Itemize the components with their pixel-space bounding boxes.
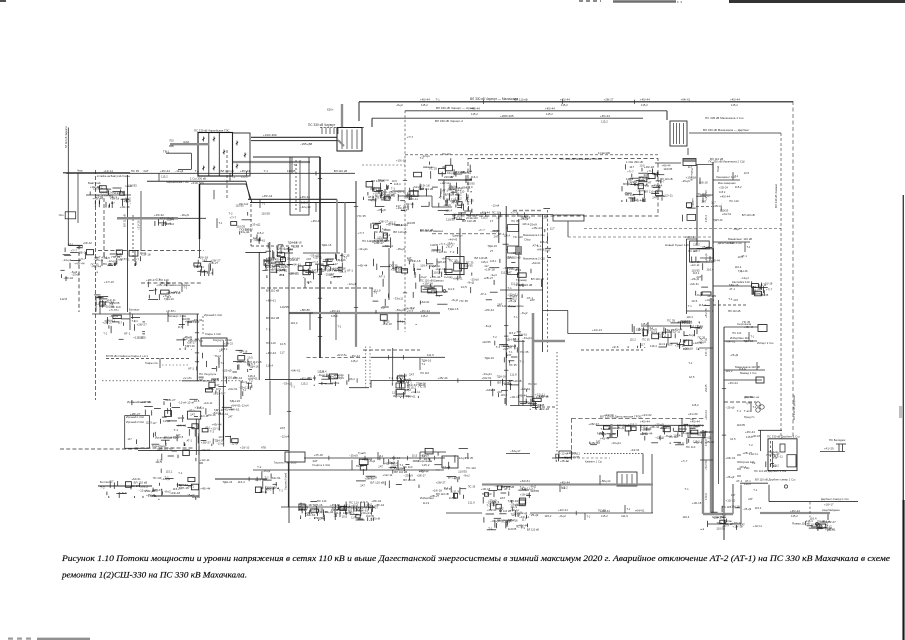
block Z internals wire (664, 428, 666, 434)
cluster y255 box (116, 250, 122, 254)
svg-text:ПС 330 кВ Махачкала 330 кВ: ПС 330 кВ Махачкала 330 кВ (560, 157, 602, 161)
cluster AP wire (548, 257, 552, 259)
svg-text:Т-1: Т-1 (445, 199, 449, 203)
dash-dot y283 (141, 282, 202, 284)
svg-text:+28/-27: +28/-27 (243, 228, 253, 232)
y479 ann tick (256, 477, 258, 481)
Kasumkent cluster wire (508, 491, 510, 495)
svg-text:+28/-27: +28/-27 (368, 506, 379, 510)
svg-text:+33/-32: +33/-32 (154, 213, 164, 217)
svg-text:115,2: 115,2 (546, 112, 553, 116)
PS Miatli wire (380, 183, 382, 189)
svg-text:Унцукуль 1 СШ: Унцукуль 1 СШ (213, 338, 232, 342)
svg-text:+64/-61: +64/-61 (334, 373, 345, 377)
tick bar (321, 127, 323, 134)
cluster I wire (218, 386, 226, 388)
svg-text:2АТ: 2АТ (748, 497, 753, 501)
Bavtugai cluster wire (113, 187, 122, 189)
svg-text:+45/-44: +45/-44 (662, 164, 671, 168)
svg-text:ВЛ 110 кВ: ВЛ 110 кВ (394, 470, 407, 474)
cluster U wire (438, 269, 440, 274)
svg-text:2Т: 2Т (490, 249, 493, 253)
svg-text:ТДН-16: ТДН-16 (421, 358, 431, 362)
svg-text:+64/-61: +64/-61 (305, 513, 316, 517)
svg-text:115,2: 115,2 (481, 216, 488, 220)
svg-text:Гергебиль: Гергебиль (152, 444, 166, 448)
cluster U wire (429, 284, 431, 287)
svg-text:+45/-44: +45/-44 (74, 261, 85, 265)
wire y479 (215, 478, 267, 480)
left extra E2 wire (112, 321, 119, 323)
cluster Gunib east wire (272, 250, 274, 257)
top line ann tick (633, 100, 635, 104)
Makhachkala 330 internals wire (639, 190, 641, 196)
city bay box (508, 246, 519, 253)
gray end cluster wire (540, 404, 542, 410)
PS Miatli wire (372, 196, 374, 200)
svg-text:+19/-18: +19/-18 (301, 503, 312, 507)
chain T1 wire (346, 380, 348, 384)
svg-text:+64/-61: +64/-61 (289, 272, 300, 276)
svg-text:T-1: T-1 (587, 515, 591, 519)
left extra E3 wire (166, 281, 168, 287)
cluster E box (100, 302, 104, 306)
wire AE-AC (446, 512, 482, 514)
block Z internals wire (602, 431, 604, 435)
svg-text:T-1: T-1 (627, 507, 631, 511)
y214 ann tick (523, 212, 525, 216)
svg-text:T-1: T-1 (422, 362, 426, 366)
x519 ann tick (517, 331, 521, 333)
cluster Q1 wire (275, 261, 283, 263)
svg-text:Новый Хушет 110: Новый Хушет 110 (665, 243, 689, 247)
Chirkey symbol tick (202, 167, 204, 169)
chain T2 wire (407, 382, 409, 388)
Makhachkala 330 internals wire (626, 199, 628, 202)
svg-text:116,4: 116,4 (683, 515, 690, 519)
dotted y380 (102, 380, 243, 382)
cluster Q2 wire (325, 266, 327, 270)
Gergebil cluster wire (161, 491, 163, 494)
artery top cluster wire (699, 178, 701, 185)
svg-text:−12+j4: −12+j4 (163, 221, 172, 225)
block internal wire (299, 160, 301, 212)
Levashi cluster wire (382, 245, 390, 247)
chain O1 wire (314, 517, 316, 519)
svg-text:116,4: 116,4 (238, 480, 245, 484)
svg-text:+45/-44: +45/-44 (560, 459, 569, 463)
artery top cluster wire (702, 197, 704, 202)
Bavtugai cluster box (99, 186, 106, 189)
svg-text:ВЛ 110 кВ Дербент-север 1 Сш: ВЛ 110 кВ Дербент-север 1 Сш (755, 478, 796, 482)
wire y496 (152, 495, 199, 497)
gray drop from bus b (344, 203, 346, 254)
svg-text:ПС 35: ПС 35 (466, 260, 474, 264)
wire x100 (99, 296, 101, 314)
cluster P wire (390, 466, 397, 468)
svg-text:Т-1: Т-1 (688, 361, 693, 365)
svg-text:2АТ: 2АТ (228, 415, 233, 419)
cluster P wire (405, 464, 409, 466)
cluster G2 wire (243, 353, 252, 355)
svg-text:1 Сш 330 кВ: 1 Сш 330 кВ (190, 177, 206, 181)
branch y341 (724, 340, 757, 342)
AF boxes wire (759, 287, 768, 289)
svg-text:Т-2: Т-2 (749, 443, 754, 447)
svg-text:−25+j9: −25+j9 (371, 516, 381, 520)
cluster R column wire (415, 324, 417, 325)
svg-text:−25+j9: −25+j9 (694, 326, 703, 330)
cluster R column box (402, 269, 408, 273)
svg-text:+25/-24: +25/-24 (719, 186, 728, 190)
svg-text:−25+j9: −25+j9 (443, 203, 452, 207)
svg-text:+28/-27: +28/-27 (588, 422, 599, 426)
left extra E2 wire (142, 333, 145, 335)
svg-text:Т-1: Т-1 (178, 471, 182, 475)
top line ann tick (483, 100, 485, 104)
cluster P wire (388, 459, 390, 464)
svg-text:−25+j9: −25+j9 (488, 498, 497, 502)
svg-text:117: 117 (280, 350, 285, 354)
block Z internals wire (616, 430, 618, 436)
svg-text:+8/-8 Лн: +8/-8 Лн (337, 353, 348, 357)
svg-text:Тарнаир: Тарнаир (516, 278, 527, 282)
chain O2 wire (339, 511, 341, 517)
svg-text:ПС 110 кВ Дербент 1 Сш: ПС 110 кВ Дербент 1 Сш (754, 469, 787, 473)
cluster y255 wire (116, 261, 118, 264)
block Z top dash-dot (572, 417, 706, 419)
left small cluster D wire (60, 274, 62, 278)
svg-text:АТ-1: АТ-1 (439, 196, 445, 200)
svg-text:ПС 35: ПС 35 (460, 299, 469, 303)
Levashi cluster wire (390, 237, 392, 241)
wire x760 drop (760, 430, 762, 451)
x320 ann tick (318, 178, 322, 180)
symbol (756, 402, 760, 406)
Makhachkala west bays wire (461, 203, 463, 208)
svg-text:116,4: 116,4 (212, 378, 219, 382)
cluster V box (518, 273, 527, 277)
svg-text:−25+j9: −25+j9 (690, 277, 699, 281)
cluster I wire (248, 382, 250, 389)
svg-text:+64/-61: +64/-61 (486, 388, 496, 392)
cluster AE wire (429, 458, 431, 461)
Irganai GES dense cluster wire (169, 408, 171, 416)
Izberbash junction cluster wire (643, 331, 645, 337)
svg-text:111,9: 111,9 (621, 514, 628, 518)
svg-text:ПС 35: ПС 35 (667, 319, 675, 323)
dashed y358 (106, 358, 191, 360)
bus y314 (92, 313, 199, 315)
left extra E2 wire (108, 325, 110, 328)
svg-text:−33+j11: −33+j11 (445, 171, 455, 175)
y173 ann tick (315, 171, 317, 175)
cluster Q2 wire (330, 281, 332, 284)
cluster R column wire (384, 299, 386, 306)
svg-text:1Сш: 1Сш (59, 214, 64, 217)
W bus taps wire (499, 344, 508, 346)
chain O2 wire (337, 505, 339, 510)
y214 ann tick (517, 212, 519, 216)
svg-text:+19/-18: +19/-18 (120, 205, 130, 209)
Irganai GES dense cluster wire (144, 410, 146, 415)
svg-text:ПС 110: ПС 110 (317, 499, 327, 503)
svg-text:117: 117 (696, 346, 701, 350)
svg-text:+64/-61: +64/-61 (330, 381, 340, 385)
cluster mid bus box (306, 262, 312, 265)
left extra E3 wire (148, 299, 158, 301)
tick bar (337, 127, 339, 134)
svg-text:ТДН-16: ТДН-16 (508, 499, 519, 503)
Makhachkala 330 internals wire (621, 186, 623, 191)
chain T2 wire (395, 393, 397, 398)
svg-text:+45/-44: +45/-44 (438, 376, 448, 380)
cluster AP wire (493, 230, 499, 232)
svg-text:Рисунок 1.10 Потоки мощности и: Рисунок 1.10 Потоки мощности и уровни на… (61, 554, 890, 563)
block Z internals wire (590, 444, 597, 446)
svg-text:Т-1: Т-1 (435, 97, 440, 101)
PS Miatli wire (381, 199, 387, 201)
cluster I wire (249, 386, 251, 390)
Makhachkala west bays wire (457, 206, 462, 208)
Bavtugai cluster wire (108, 190, 110, 195)
svg-text:T-1: T-1 (262, 202, 266, 206)
svg-text:ПС 35: ПС 35 (509, 363, 517, 367)
wire y430 top (758, 429, 782, 431)
drop x182 (182, 315, 184, 329)
cluster Gunib east wire (275, 265, 277, 273)
wire y290 (500, 289, 543, 291)
svg-text:+45/-44: +45/-44 (545, 106, 555, 110)
svg-text:110/35: 110/35 (128, 183, 137, 187)
svg-text:ТДН-16: ТДН-16 (249, 364, 259, 368)
svg-text:+7/-7: +7/-7 (230, 216, 237, 220)
AF boxes box (752, 284, 759, 288)
svg-text:+12/-11: +12/-11 (203, 401, 213, 405)
svg-text:−25+j9: −25+j9 (529, 513, 539, 517)
svg-text:−25+j9: −25+j9 (726, 475, 735, 479)
wire y501 long (769, 501, 858, 503)
svg-text:+64/-61: +64/-61 (681, 97, 691, 101)
svg-text:ТДН-16: ТДН-16 (448, 307, 459, 311)
svg-text:+28/-27: +28/-27 (137, 323, 148, 327)
cluster V wire (489, 267, 499, 269)
cluster below x199 wire (208, 264, 210, 272)
left extra E2 wire (121, 318, 130, 320)
Kasumkent cluster wire (521, 530, 523, 532)
branch dash y305 (713, 304, 747, 306)
svg-text:−12+j4: −12+j4 (186, 400, 195, 404)
svg-text:ПС 110 кВ Леваши: ПС 110 кВ Леваши (362, 239, 387, 243)
Makhachkala 330 internals wire (651, 193, 659, 195)
artery top cluster wire (687, 207, 695, 209)
below gray y218 wire (161, 224, 163, 226)
cluster L wire (104, 497, 106, 499)
block Z internals wire (675, 444, 684, 446)
small marks wire (555, 460, 557, 462)
cluster L wire (117, 481, 119, 486)
Makhachkala west bays wire (466, 193, 468, 199)
below gray y218 wire (158, 219, 160, 226)
box AD bar (621, 474, 623, 484)
Izberbash junction cluster wire (640, 343, 642, 348)
svg-text:115,2: 115,2 (509, 331, 516, 335)
cluster F wire (190, 349, 193, 351)
svg-text:T-1: T-1 (400, 463, 404, 467)
svg-text:Т-атл: Т-атл (744, 409, 751, 413)
below gray y218 wire (154, 221, 156, 226)
svg-text:10,5: 10,5 (307, 280, 313, 284)
cluster P wire (362, 469, 364, 475)
svg-text:Гоцатль 1 СШ: Гоцатль 1 СШ (312, 463, 330, 467)
svg-text:+64/-61: +64/-61 (403, 306, 414, 310)
svg-text:117: 117 (690, 417, 695, 421)
power plant block box (290, 157, 309, 215)
svg-text:116,4: 116,4 (650, 344, 657, 348)
svg-text:ремонта 1(2)СШ-330 на ПС 330: ремонта 1(2)СШ-330 на ПС 330 кВ Махачкал… (61, 571, 247, 580)
symbol (760, 405, 764, 409)
svg-text:+61/-60: +61/-60 (688, 412, 698, 416)
bar sym a (838, 444, 840, 452)
chain T1 wire (335, 382, 337, 387)
chain O1 wire (299, 518, 301, 519)
svg-text:+12/-11: +12/-11 (535, 393, 545, 397)
Izberbash junction cluster wire (674, 334, 676, 339)
svg-text:+45/-44: +45/-44 (711, 258, 721, 262)
Makhachkala west bays wire (454, 173, 462, 175)
svg-text:2АТ: 2АТ (530, 298, 535, 302)
svg-text:ВЛ 330 кВ Чирюрт — Артем: ВЛ 330 кВ Чирюрт — Артем (436, 106, 475, 110)
svg-text:+7/-7: +7/-7 (407, 135, 414, 139)
cluster G2 wire (205, 361, 207, 367)
svg-text:2СШ-110: 2СШ-110 (466, 216, 478, 220)
Shamkhal box bottom ticks (444, 274, 465, 276)
cluster P wire (413, 460, 419, 462)
svg-text:Чирк: Чирк (77, 169, 83, 172)
artery tap left (700, 347, 713, 349)
svg-text:116,4: 116,4 (522, 222, 529, 226)
gray dash y210 (513, 210, 543, 212)
Izberbash junction cluster wire (680, 322, 682, 330)
svg-text:ТДН-16: ТДН-16 (497, 374, 506, 378)
AF boxes wire (762, 286, 764, 293)
svg-text:−25+j9: −25+j9 (508, 294, 518, 298)
svg-text:ВЛ 330 кВ Дербент: ВЛ 330 кВ Дербент (792, 394, 796, 420)
svg-text:115,2: 115,2 (166, 469, 173, 473)
svg-text:10,5: 10,5 (277, 251, 283, 255)
svg-text:АТ-1: АТ-1 (188, 366, 194, 370)
W bus taps wire (519, 401, 527, 403)
left extra E2 wire (134, 324, 136, 330)
svg-text:115,2: 115,2 (601, 514, 608, 518)
cluster Q2 box (303, 271, 310, 275)
cluster I wire (226, 377, 228, 384)
dash-dot x104 (103, 198, 105, 258)
svg-text:+45/-44: +45/-44 (652, 184, 663, 188)
svg-text:115,2: 115,2 (391, 461, 398, 465)
chain O1 wire (322, 512, 324, 517)
cluster Gunib east wire (266, 250, 272, 252)
svg-text:Пváб: Пváб (716, 165, 720, 172)
svg-text:Т-1: Т-1 (118, 258, 123, 262)
branch y380 (724, 379, 762, 381)
Irganai GES dense cluster wire (144, 405, 153, 407)
cluster E wire (99, 298, 108, 300)
Makhachkala 330 internals wire (643, 190, 645, 198)
svg-text:+19/-18: +19/-18 (511, 251, 521, 255)
W bus taps wire (494, 341, 496, 346)
svg-text:ПС 110: ПС 110 (513, 235, 523, 239)
chain T3 wire (419, 397, 421, 399)
cluster AE wire (459, 447, 468, 449)
Derbent internal dash a (770, 441, 772, 468)
gray end cluster wire (526, 396, 533, 398)
Makhachkala west bays wire (446, 199, 448, 205)
svg-text:2АТ: 2АТ (683, 338, 688, 342)
Makhachkala west bays box (458, 202, 462, 206)
svg-text:−8+j2: −8+j2 (479, 212, 486, 216)
Irganai pair a (258, 252, 260, 380)
svg-text:2АТ: 2АТ (494, 235, 499, 239)
branch y370 (724, 369, 765, 371)
svg-text:МВт: МВт (169, 144, 175, 148)
box G (201, 338, 227, 346)
block Z internals box (679, 426, 685, 432)
Makhachkala west bays wire (469, 165, 471, 172)
svg-text:ВЛ 110 кВ: ВЛ 110 кВ (527, 528, 539, 532)
svg-text:−8+j2: −8+j2 (696, 293, 703, 297)
svg-text:ТДН-16: ТДН-16 (214, 439, 224, 443)
svg-text:АТ-1: АТ-1 (504, 487, 511, 491)
svg-text:+64/-61: +64/-61 (256, 239, 266, 243)
Kasumkent cluster box (496, 504, 501, 509)
svg-text:2АТ: 2АТ (596, 439, 601, 443)
left vertical x127 (127, 175, 129, 312)
svg-text:Т-1: Т-1 (753, 488, 758, 492)
svg-text:117: 117 (688, 165, 693, 169)
chain T3 wire (399, 396, 401, 399)
cluster V wire (521, 294, 523, 298)
svg-text:+28/-27: +28/-27 (201, 440, 211, 444)
wire box AK link (655, 162, 681, 164)
block Z extra wire (690, 427, 695, 429)
svg-text:Т-1: Т-1 (195, 169, 200, 173)
svg-text:+12/-11: +12/-11 (408, 197, 418, 201)
W bus taps wire (490, 380, 492, 386)
Makhachkala west bays wire (458, 212, 466, 214)
Yalama symbols cluster wire (827, 530, 830, 532)
cluster P wire (418, 485, 420, 489)
Yalama symbols cluster box (817, 524, 826, 528)
svg-text:ТДН-16: ТДН-16 (713, 218, 723, 222)
Gergebil cluster wire (159, 483, 161, 486)
chain O1 wire (300, 503, 302, 510)
gray end cluster wire (535, 408, 537, 410)
AF boxes box (755, 291, 762, 296)
cluster L wire (151, 491, 154, 493)
bay wire (673, 123, 675, 144)
Shamkhal lower box a (421, 286, 432, 292)
cluster M wire (265, 486, 267, 493)
cluster R column box (380, 315, 387, 321)
svg-text:T-1: T-1 (400, 320, 404, 324)
svg-text:+45/-44: +45/-44 (560, 480, 570, 484)
svg-text:ТДН-16: ТДН-16 (437, 260, 447, 264)
svg-text:ПС 35: ПС 35 (743, 320, 751, 324)
Makhachkala 330 internals wire (630, 197, 632, 202)
cluster F wire (184, 347, 186, 350)
Makhachkala 330 internals wire (633, 194, 643, 196)
